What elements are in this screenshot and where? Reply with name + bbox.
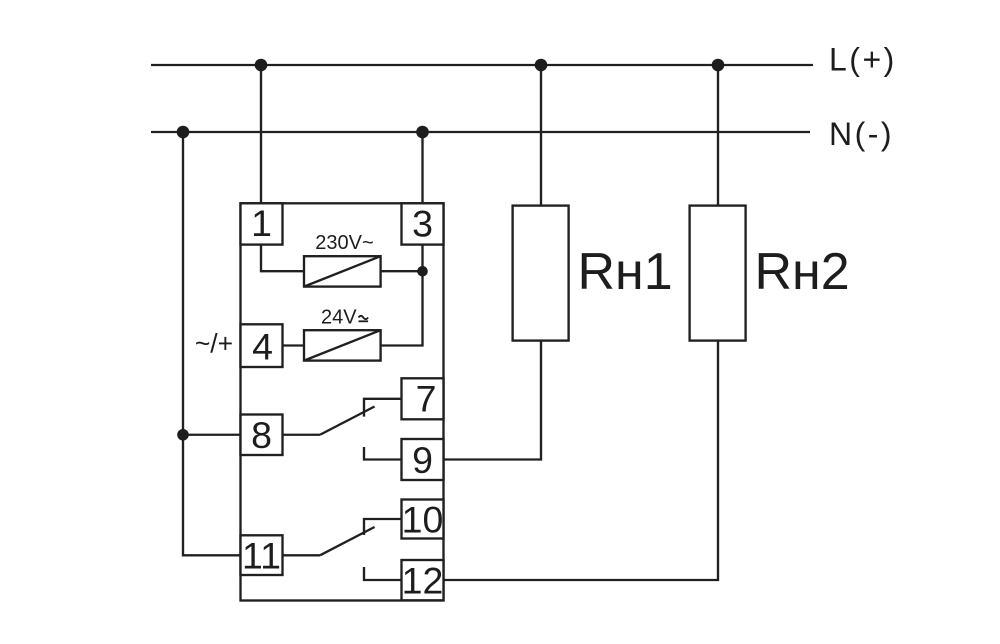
terminal 9 box (402, 439, 444, 480)
wire terminal 1 to coil 230V (261, 245, 304, 272)
contact to terminal 9 (364, 447, 402, 460)
switch K1 blade (320, 407, 375, 435)
coil A2 24V box (304, 330, 381, 360)
svg-text:12: 12 (402, 560, 444, 602)
load Rn1 box (513, 206, 569, 341)
wire L bus to load Rn1 (540, 65, 542, 206)
switch K2 blade (320, 527, 375, 555)
wire Rn1 to terminal 9 (444, 341, 542, 460)
junction dot N-branch (177, 126, 190, 139)
wire branch to terminal 8 (183, 434, 241, 436)
svg-text:9: 9 (412, 439, 433, 481)
svg-text:4: 4 (252, 326, 273, 368)
contact to terminal 10 (364, 519, 402, 535)
contact to terminal 12 (364, 567, 402, 580)
wire L bus to terminal 1 (260, 65, 262, 203)
wire terminal 4 to coil 24V (283, 344, 305, 346)
wire N(-) bus (151, 131, 810, 133)
wire terminal 8 to switch K1 (283, 434, 321, 436)
svg-text:11: 11 (242, 534, 281, 576)
svg-text:1: 1 (251, 202, 272, 244)
terminal 7 box (402, 378, 444, 419)
junction dot node A (417, 266, 428, 277)
wire N bus left branch down (183, 132, 241, 555)
svg-text:L(+): L(+) (829, 42, 897, 78)
svg-text:10: 10 (402, 499, 444, 541)
svg-text:24V: 24V (321, 307, 357, 329)
wire N bus to terminal 3 (421, 132, 423, 203)
svg-text:~/+: ~/+ (195, 329, 233, 359)
junction dot L-1 (255, 59, 268, 72)
terminal 12 box (402, 560, 444, 600)
device outline box (241, 203, 444, 600)
coil A1 230V box (304, 256, 381, 286)
terminal 3 box (402, 203, 444, 244)
terminal 8 box (241, 415, 283, 456)
junction dot branch-8 (177, 429, 189, 441)
wire terminal 3 down to node A (421, 245, 423, 272)
junction dot L-Rn1 (535, 59, 548, 72)
junction dot N-3 (416, 126, 429, 139)
wire L bus to load Rn2 (717, 65, 719, 206)
svg-text:7: 7 (416, 377, 437, 419)
terminal 4 box (241, 324, 283, 367)
contact to terminal 7 (364, 399, 402, 417)
wire Rn2 to terminal 12 (444, 341, 719, 580)
svg-text:Rн2: Rн2 (755, 243, 850, 301)
svg-text:230V~: 230V~ (315, 232, 373, 254)
terminal 11 box (241, 535, 283, 575)
wire node A down to coil 24V (381, 271, 423, 345)
svg-text:Rн1: Rн1 (578, 243, 673, 301)
junction dot L-Rn2 (712, 59, 725, 72)
wire L(+) bus (151, 64, 813, 66)
svg-text:N(-): N(-) (829, 116, 894, 152)
load Rn2 box (690, 206, 746, 341)
terminal 1 box (241, 203, 283, 244)
wire terminal 11 to switch K2 (283, 554, 321, 556)
svg-text:8: 8 (251, 414, 272, 456)
wire coil 230V to node A (381, 270, 423, 272)
terminal 10 box (402, 500, 444, 539)
svg-text:3: 3 (412, 203, 433, 245)
